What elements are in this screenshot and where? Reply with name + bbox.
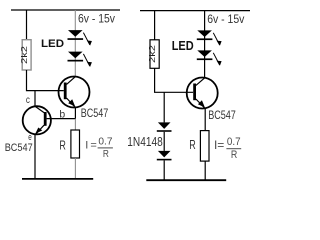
wire diode chain to ground rail bbox=[163, 160, 165, 180]
svg-text:R: R bbox=[103, 149, 109, 160]
svg-text:R: R bbox=[231, 149, 237, 161]
svg-text:LED: LED bbox=[41, 38, 64, 50]
resistor 2k2 (right) bbox=[150, 40, 159, 69]
wire 2k2 bottom to node A corner bbox=[27, 70, 64, 91]
wire LED chain (gray) bbox=[74, 10, 76, 77]
svg-text:R: R bbox=[189, 137, 196, 152]
ground rail (left circuit) bbox=[22, 178, 93, 180]
svg-text:LED: LED bbox=[172, 39, 194, 53]
svg-text:=: = bbox=[90, 139, 96, 151]
svg-text:6v - 15v: 6v - 15v bbox=[207, 12, 244, 26]
wire Q2 base to Q1 emitter junction bbox=[47, 118, 76, 120]
wire 2k2 to node B and to Q3 base bbox=[155, 68, 194, 92]
svg-text:6v - 15v: 6v - 15v bbox=[78, 11, 115, 25]
resistor 2k2 (left, gray box) bbox=[22, 40, 31, 70]
diode D6 1N4148 (bottom) bbox=[158, 151, 171, 158]
resistor R (left) bbox=[71, 130, 80, 158]
wire Q1 emitter down to junction bbox=[74, 108, 76, 119]
svg-text:1N4148: 1N4148 bbox=[127, 135, 162, 149]
wire node B down to diode chain bbox=[163, 92, 165, 122]
wire Q3 emitter down to resistor R (right) bbox=[204, 109, 206, 131]
svg-text:BC547: BC547 bbox=[81, 108, 108, 120]
arrow light emission LED D1 left bbox=[83, 33, 92, 46]
LED D3 (right top) bbox=[197, 30, 212, 37]
wire node A down to Q2 collector bbox=[34, 91, 36, 107]
wire R to ground rail (gray) bbox=[74, 158, 76, 179]
wire LED chain (right) bbox=[204, 11, 206, 78]
svg-text:R: R bbox=[59, 138, 66, 153]
svg-text:BC547: BC547 bbox=[5, 142, 33, 154]
ground rail (right circuit) bbox=[146, 179, 226, 181]
transistor Q2 BC547 (left sense, mirrored) bbox=[23, 106, 51, 135]
formula I = 0.7/R (right) bbox=[214, 136, 241, 161]
svg-text:c: c bbox=[26, 94, 30, 106]
top supply rail (right circuit) bbox=[140, 10, 250, 12]
svg-text:BC547: BC547 bbox=[208, 108, 236, 122]
svg-text:I: I bbox=[85, 139, 88, 151]
arrow light emission LED D4 right bbox=[213, 53, 221, 66]
wire R to ground rail (right) bbox=[204, 161, 206, 180]
diode D5 1N4148 (top) bbox=[158, 122, 171, 128]
LED D2 (left bottom) bbox=[68, 52, 83, 59]
arrow light emission LED D2 left bbox=[83, 54, 92, 67]
wire rail to resistor 2k2 bbox=[26, 10, 28, 40]
arrow light emission LED D3 right bbox=[213, 33, 221, 46]
top supply rail (left circuit) bbox=[11, 9, 120, 11]
svg-text:0.7: 0.7 bbox=[98, 137, 113, 148]
wire between diodes bbox=[163, 132, 165, 151]
transistor Q3 BC547 (right driver) bbox=[187, 77, 218, 108]
wire Q2 emitter to ground rail bbox=[34, 135, 36, 180]
wire rail to resistor 2k2 (right) bbox=[154, 11, 156, 40]
svg-text:0.7: 0.7 bbox=[227, 136, 241, 148]
svg-text:=: = bbox=[217, 138, 224, 152]
transistor Q1 BC547 (left driver) bbox=[59, 76, 90, 107]
resistor R (right) bbox=[200, 131, 209, 162]
LED D1 (left top) bbox=[68, 30, 83, 37]
LED D4 (right bottom) bbox=[197, 50, 212, 57]
formula I = 0.7/R (left) bbox=[85, 137, 113, 161]
svg-text:2k2: 2k2 bbox=[148, 44, 157, 63]
wire junction to resistor R (gray) bbox=[74, 119, 76, 130]
svg-text:2k2: 2k2 bbox=[20, 45, 29, 64]
